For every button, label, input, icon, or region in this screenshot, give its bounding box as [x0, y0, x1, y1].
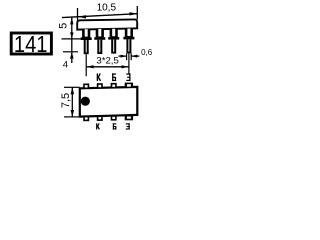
plan view bottom lead stubs	[83, 115, 133, 121]
svg-text:7,5: 7,5	[60, 93, 72, 108]
figure number box 141	[11, 30, 51, 57]
pin label Б (bottom row)	[113, 123, 117, 129]
dimension 4 (lead length)	[63, 39, 78, 70]
orientation dot (pin 1 mark)	[81, 97, 90, 106]
dimension 10,5 (package width)	[62, 3, 137, 21]
svg-text:10,5: 10,5	[97, 3, 117, 14]
plan view top lead stubs	[83, 83, 133, 89]
dimension 7,5 (package depth)	[60, 87, 79, 117]
pin label Б (top row)	[112, 73, 116, 81]
pin label К (top row)	[97, 73, 101, 81]
side view package body	[77, 19, 137, 29]
pin label К (bottom row)	[96, 123, 99, 129]
pin 3 side view	[108, 29, 119, 54]
svg-text:3*2,5: 3*2,5	[96, 56, 118, 67]
dimension 5 (body + shoulder height)	[58, 18, 83, 40]
dimension 3*2,5 (lead pitch)	[86, 53, 129, 76]
pin 4 side view	[123, 28, 134, 53]
svg-text:0,6: 0,6	[141, 48, 153, 57]
plan view package body	[80, 87, 138, 117]
svg-text:4: 4	[63, 59, 68, 70]
pin label Э (bottom row)	[126, 123, 130, 129]
pin 2 side view	[94, 29, 105, 54]
svg-text:5: 5	[58, 23, 70, 29]
dimension 0,6 (lead width)	[119, 48, 153, 60]
pin 1 side view (shoulder, foot, lead)	[81, 29, 92, 54]
pin label Э (top row)	[126, 73, 130, 81]
svg-text:141: 141	[14, 30, 48, 57]
